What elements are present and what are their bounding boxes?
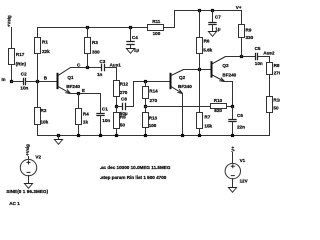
svg-text:BF240: BF240	[178, 84, 192, 89]
svg-text:R5: R5	[120, 115, 126, 120]
svg-text:10n: 10n	[20, 85, 28, 90]
svg-text:22n: 22n	[237, 124, 245, 129]
svg-text:V2: V2	[35, 154, 41, 159]
svg-text:330: 330	[92, 50, 100, 55]
svg-text:C3: C3	[99, 59, 105, 64]
svg-text:+Vsig: +Vsig	[6, 15, 11, 27]
svg-text:R3: R3	[92, 40, 98, 45]
svg-text:C8: C8	[121, 96, 127, 101]
svg-text:AC 1: AC 1	[9, 201, 20, 206]
svg-text:C4: C4	[132, 35, 138, 40]
svg-text:R11: R11	[152, 19, 161, 24]
svg-text:R1: R1	[42, 40, 48, 45]
svg-text:.step param Rin list 1 500 470: .step param Rin list 1 500 4700	[100, 175, 167, 180]
svg-text:V1: V1	[240, 158, 246, 163]
svg-text:BF240: BF240	[66, 84, 80, 89]
svg-text:R16: R16	[273, 97, 280, 102]
svg-text:R4: R4	[83, 111, 89, 116]
svg-text:50: 50	[273, 105, 279, 110]
svg-text:R14: R14	[149, 89, 158, 94]
svg-text:In: In	[2, 77, 6, 82]
svg-text:22k: 22k	[42, 49, 50, 54]
svg-text:R13: R13	[149, 115, 158, 120]
svg-text:R12: R12	[120, 82, 129, 87]
svg-text:SINE(0 1 96.3MEG): SINE(0 1 96.3MEG)	[6, 189, 48, 194]
svg-text:(Rin): (Rin)	[16, 61, 27, 66]
svg-text:.ac dec 10000 10.0MEG 11.5MEG: .ac dec 10000 10.0MEG 11.5MEG	[100, 165, 171, 170]
svg-text:R8: R8	[274, 63, 280, 68]
svg-text:BF240: BF240	[222, 73, 236, 78]
svg-text:R6: R6	[204, 39, 210, 44]
svg-text:1n: 1n	[97, 72, 103, 77]
svg-text:V+: V+	[236, 5, 242, 10]
svg-text:15k: 15k	[204, 124, 212, 129]
svg-text:270: 270	[120, 90, 128, 95]
svg-text:E: E	[82, 88, 85, 93]
svg-text:330: 330	[246, 35, 254, 40]
svg-text:+Vsig: +Vsig	[25, 144, 30, 156]
svg-text:C1: C1	[102, 106, 108, 111]
svg-text:50: 50	[120, 123, 126, 128]
svg-text:5.6k: 5.6k	[203, 48, 212, 53]
svg-text:270: 270	[150, 98, 158, 103]
svg-text:R7: R7	[204, 115, 210, 120]
svg-text:Q2: Q2	[179, 75, 186, 80]
svg-text:270: 270	[274, 70, 280, 75]
svg-text:Q3: Q3	[222, 63, 229, 68]
svg-text:C2: C2	[21, 71, 27, 76]
svg-text:R9: R9	[246, 28, 252, 33]
svg-text:V+: V+	[230, 146, 235, 152]
svg-text:1µ: 1µ	[215, 26, 221, 31]
svg-text:10n: 10n	[102, 118, 110, 123]
svg-text:1µ: 1µ	[134, 47, 140, 52]
svg-text:10n: 10n	[255, 61, 263, 66]
svg-text:100: 100	[153, 31, 161, 36]
svg-text:C6: C6	[237, 113, 243, 118]
svg-text:C7: C7	[215, 14, 221, 19]
svg-text:Q1: Q1	[67, 75, 74, 80]
svg-text:Aus1: Aus1	[110, 63, 122, 68]
svg-text:100: 100	[149, 123, 157, 128]
svg-text:820: 820	[214, 108, 222, 113]
svg-text:R10: R10	[214, 98, 223, 103]
svg-text:1k: 1k	[83, 119, 89, 124]
svg-text:R2: R2	[41, 108, 47, 113]
svg-text:12V: 12V	[240, 179, 249, 184]
svg-text:R17: R17	[16, 52, 25, 57]
svg-text:C5: C5	[255, 46, 261, 51]
svg-text:Aus2: Aus2	[263, 51, 275, 56]
svg-text:10k: 10k	[41, 119, 49, 124]
